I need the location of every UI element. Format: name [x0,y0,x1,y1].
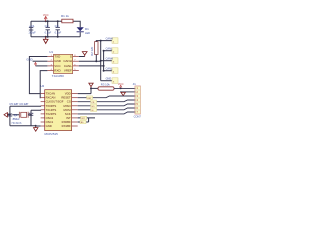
wire R1 to LED [73,21,80,27]
wire crystal bottom rail [10,125,36,127]
svg-text:C6 22P: C6 22P [19,102,28,106]
wire bottom rail [31,36,80,38]
svg-text:S: S [70,55,72,59]
wire top rail [31,20,62,22]
svg-text:Q1: Q1 [14,113,18,117]
wire R3 left [91,87,98,89]
capacitor C3 [56,27,60,29]
svg-text:CANL: CANL [106,68,113,71]
svg-text:HC49US: HC49US [12,122,22,125]
svg-text:TXD: TXD [54,55,61,59]
svg-text:GND: GND [26,58,32,62]
wire INT row stub [78,118,95,122]
ground S pin [82,52,87,57]
flag CANH 3 [112,58,118,64]
wire S pin to gnd [79,56,85,58]
wire CANH row [79,60,101,62]
power flag VCC conn [119,85,122,88]
svg-text:C2: C2 [45,24,49,28]
ground conn pin2 [121,92,125,96]
connector J1 body outline [135,86,141,114]
wire OSC2 row [31,109,41,111]
svg-text:C5 22P: C5 22P [9,102,18,106]
pin names U2 left [46,92,64,128]
capacitor C2 [46,27,50,29]
wire RXD to MCP RXCAN [40,71,47,98]
svg-text:TJA1050: TJA1050 [52,74,64,78]
wire flag row5 [101,80,112,82]
wire cap C6 branch [30,110,32,126]
pin names U2 right [61,92,71,128]
wire C1 branch [30,21,32,37]
svg-text:VCC: VCC [118,82,124,86]
connector J1 pads [136,87,141,114]
junction dots bus [95,40,104,72]
capacitor C5 plates [8,114,13,116]
net flags right column [106,38,118,84]
ground below U2 GND pin [34,126,39,131]
pin names U1 [54,55,72,73]
junction dot crystal rail [9,114,37,127]
wire vertical bus B [103,51,105,71]
wire C2 branch [47,21,49,37]
net label GND u1 pin2 [33,60,48,62]
crystal Q1 [12,112,31,118]
svg-text:GND: GND [54,59,62,63]
svg-text:D1: D1 [85,27,89,31]
svg-text:VCC: VCC [54,64,61,68]
connector J1 pin numbers [136,86,138,114]
capacitor C6 plates [29,113,34,115]
resistor R2 termination [95,42,98,55]
transceiver U1 TJA1050 body [54,54,73,73]
svg-text:+C1: +C1 [29,24,35,28]
svg-text:CANH: CANH [106,58,113,61]
node junction dots top rail [45,20,59,38]
svg-text:CANH: CANH [63,59,72,63]
svg-text:VREF: VREF [64,69,72,73]
wire SCK row to pad7 [78,112,136,114]
svg-text:R3 10k: R3 10k [101,82,110,86]
wire CS row to pad4 [78,100,136,102]
svg-text:SO: SO [91,106,94,108]
wire flag row2 [104,50,112,52]
wire conn pin2 gnd [120,91,136,93]
net label boxes on rows [87,96,97,112]
svg-text:CON7: CON7 [134,115,142,119]
flag CANL 2 [112,48,118,54]
wire CANL row [79,65,104,67]
wire SO row to pad5 [78,104,136,106]
pin numbers U1 [51,55,77,71]
svg-text:R2 120: R2 120 [90,46,94,55]
svg-text:MCP2515: MCP2515 [45,132,59,136]
svg-text:100uF: 100uF [28,30,36,34]
resistor R1 [62,19,73,23]
wire vertical bus A [100,41,102,81]
svg-text:GND: GND [106,78,112,81]
pin leads right U2 [72,94,78,126]
flag CANH 1 [112,38,118,44]
svg-text:C3: C3 [55,24,59,28]
svg-text:U2: U2 [40,84,44,88]
resistor R3 [98,87,114,90]
wire RST row to pad3 [78,96,136,98]
flag GND 5 [112,78,118,84]
wire C3 branch [57,21,59,37]
wire R2 top to flag row1 [96,41,112,42]
svg-text:VCC: VCC [43,13,49,17]
svg-text:GND: GND [46,124,52,128]
wire left vertical [30,21,32,37]
wire LED bottom [79,32,81,37]
svg-text:CANH: CANH [106,38,113,41]
wire R2 bottom to CANH [95,55,97,62]
ic U2 MCP2515 body [45,90,72,131]
svg-text:0.1uF: 0.1uF [55,30,62,34]
wire flag row4 [104,70,112,72]
pin leads right U1 [73,57,79,71]
wire cap C5 branch [9,106,11,125]
svg-text:CANL: CANL [64,64,72,68]
pin leads left U2 [41,94,45,126]
junction dot R3 node [90,87,92,89]
svg-text:RXD: RXD [54,69,61,73]
flag CANL 4 [112,68,118,74]
ground flag above R3 [89,83,93,88]
ground power section [43,37,48,44]
wire TXD to MCP TXCAN [29,57,47,94]
power flag VCC top [44,16,47,21]
wire RX0BF stub [78,121,89,123]
wire GND pin U2 [36,125,41,127]
svg-text:8MHz: 8MHz [13,117,21,121]
svg-text:U1: U1 [49,50,53,54]
ground crystal left [4,113,10,117]
svg-text:LED: LED [85,31,90,35]
svg-text:RST: RST [87,98,92,100]
svg-text:CANL: CANL [106,48,113,51]
wire OSC1 row [10,105,41,108]
wire R3 right to conn pin1 [114,87,136,89]
wire SI row to pad6 [78,108,136,110]
svg-text:RX1BF: RX1BF [62,124,71,128]
wire flag row3 [101,60,112,62]
wire VDD stub up [78,88,91,93]
LED D1 [77,27,84,32]
svg-text:R1 1k: R1 1k [61,14,69,18]
capacitor C1 (100uF) [29,28,33,30]
pin leads left U1 [47,57,53,71]
svg-text:0.1uF: 0.1uF [45,30,52,34]
wire VCC u1 pin3 [36,65,48,67]
